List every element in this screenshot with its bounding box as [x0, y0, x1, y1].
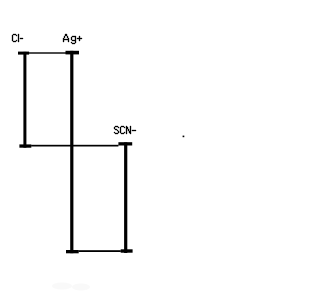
stray dot — [183, 136, 185, 138]
wire top (Cl- cap to Ag+ cap) — [29, 52, 66, 53]
label Cl- — [12, 34, 23, 42]
wire middle (Cl- bottom cap to SCN- top cap) — [31, 145, 118, 147]
bar Ag+ top cap — [66, 51, 80, 55]
label SCN- — [114, 126, 136, 134]
bar SCN- bottom cap — [121, 249, 133, 252]
bar SCN- top cap — [118, 142, 132, 145]
wire bottom (Ag+ bottom cap to SCN- bottom cap) — [79, 250, 121, 252]
faint smudge — [52, 283, 90, 291]
bar Cl- top cap — [18, 52, 29, 55]
bar SCN- vertical — [124, 142, 127, 253]
bar Cl- vertical — [23, 52, 26, 148]
label Ag+ — [63, 34, 82, 44]
bar Ag+ vertical — [70, 51, 73, 254]
bar Ag+ bottom cap — [66, 250, 79, 253]
bar Cl- bottom cap — [19, 144, 31, 147]
